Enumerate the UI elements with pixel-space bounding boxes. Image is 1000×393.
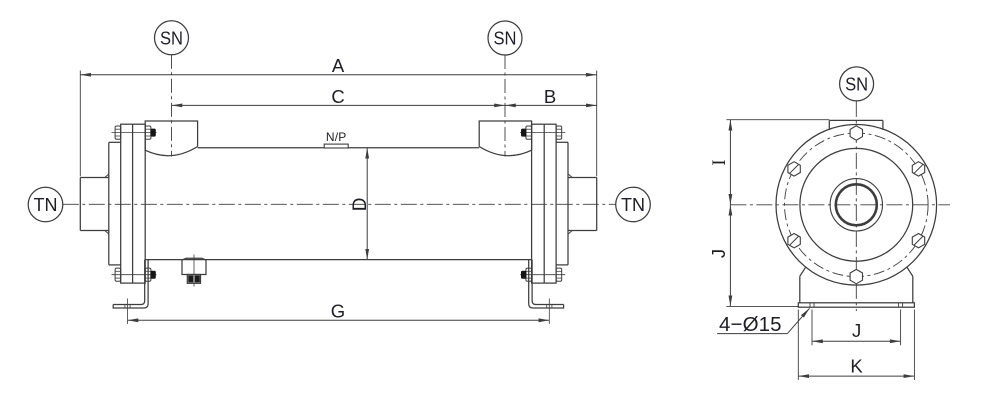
svg-text:C: C: [331, 86, 344, 107]
svg-text:SN: SN: [160, 28, 183, 49]
svg-text:J: J: [708, 249, 729, 258]
svg-text:SN: SN: [845, 74, 868, 95]
svg-text:TN: TN: [34, 194, 58, 215]
svg-text:K: K: [850, 356, 863, 377]
svg-text:SN: SN: [494, 28, 517, 49]
svg-text:A: A: [332, 55, 345, 76]
svg-text:N/P: N/P: [326, 130, 347, 144]
svg-text:TN: TN: [621, 194, 645, 215]
svg-text:G: G: [331, 301, 345, 322]
svg-text:D: D: [350, 198, 371, 212]
svg-text:I: I: [710, 159, 730, 165]
svg-text:4−Ø15: 4−Ø15: [719, 313, 782, 336]
svg-text:J: J: [852, 320, 861, 341]
svg-text:B: B: [544, 86, 556, 107]
